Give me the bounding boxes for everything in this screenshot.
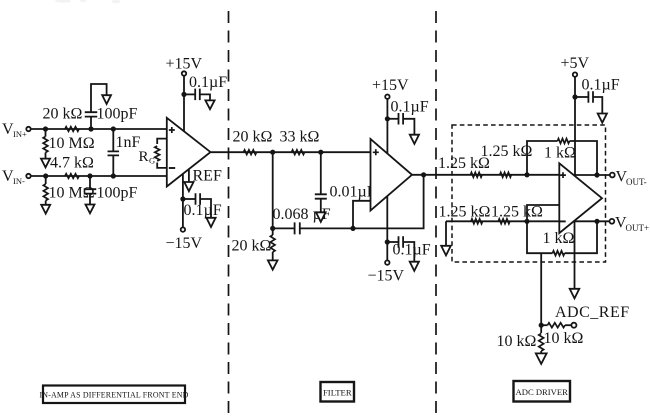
node I junction upper: [524, 172, 529, 177]
op-amp U1 in-amp triangle: [167, 118, 211, 187]
resistor 1.25 kOhm upper 2: [500, 172, 512, 177]
node junction feedback/minus jog: [350, 226, 355, 231]
terminal V_OUT-: [610, 173, 615, 178]
terminal -15V in-amp: [181, 227, 185, 231]
resistor 10 kOhm vertical to ground: [539, 325, 544, 353]
ground for filter V- decoupling: [410, 262, 419, 271]
capacitor 0.1uF decoupling in-amp V-: [183, 193, 211, 218]
resistor 10 MOhm (top, to ground): [43, 129, 48, 159]
svg-text:1.25 kΩ: 1.25 kΩ: [481, 143, 533, 160]
node junction ADC_REF: [539, 323, 544, 328]
resistor 1.25 kOhm lower 1: [471, 219, 483, 224]
svg-text:20 kΩ: 20 kΩ: [232, 237, 272, 254]
resistor 1.25 kOhm lower 2: [498, 219, 510, 224]
label V_OUT+: [615, 214, 649, 233]
node B junction (100pF tap): [88, 126, 93, 131]
svg-text:10 MΩ: 10 MΩ: [49, 135, 95, 152]
resistor 20 kOhm input (top): [65, 127, 79, 132]
node E junction (100pF bottom tap): [87, 173, 92, 178]
resistor 33 kOhm filter series: [292, 150, 305, 155]
terminal V_IN+: [26, 127, 30, 131]
wire V_IN- input line: [31, 175, 166, 177]
svg-text:REF: REF: [193, 168, 222, 185]
wire +15V supply to in-amp V+ pin: [183, 76, 185, 132]
label V_IN-: [2, 168, 25, 186]
section label box FILTER: [321, 382, 355, 402]
node D junction on V_IN- line: [43, 173, 48, 178]
resistor 4.7 kOhm (bottom line series): [65, 174, 79, 179]
ground for filter V+ decoupling: [410, 135, 419, 144]
wire in-amp V- pin to -15V terminal: [182, 174, 184, 227]
pin - marker of filter op-amp: [373, 200, 379, 202]
label V_OUT-: [616, 168, 647, 187]
wire V_OUT- output line: [574, 174, 610, 176]
svg-text:10 kΩ: 10 kΩ: [544, 330, 584, 347]
svg-text:0.1µF: 0.1µF: [582, 76, 620, 93]
section label box IN-AMP: [43, 386, 185, 404]
dashed separator 1: [228, 11, 230, 417]
pin - marker of in-amp: [169, 167, 175, 169]
svg-text:IN-: IN-: [13, 176, 25, 186]
capacitor 0.1uF decoupling +5V: [575, 91, 602, 113]
svg-text:10 kΩ: 10 kΩ: [497, 333, 537, 350]
svg-text:ADC DRIVER: ADC DRIVER: [516, 387, 569, 397]
dashed box ADC driver: [452, 125, 606, 262]
node junction on -15V wire: [180, 196, 185, 201]
node A junction on V_IN+ line: [43, 126, 48, 131]
svg-text:ADC_REF: ADC_REF: [555, 304, 630, 321]
svg-text:0.1µF: 0.1µF: [189, 74, 227, 91]
svg-text:0.1µF: 0.1µF: [184, 202, 222, 219]
capacitor 100pF (bottom, to ground): [84, 176, 97, 205]
svg-text:+15V: +15V: [372, 77, 409, 94]
ground REF pin: [184, 182, 193, 191]
resistor 10 kOhm horizontal to ADC_REF terminal: [541, 323, 571, 328]
wire +5V supply to diff amp: [574, 77, 576, 176]
ground for in-amp V- decoupling: [206, 218, 215, 227]
ground below 10 MOhm bottom: [41, 205, 50, 214]
svg-text:OUT-: OUT-: [626, 177, 647, 187]
wire filter op-amp output: [412, 174, 470, 176]
ground below filter 20 kOhm: [268, 260, 278, 269]
capacitor 0.1uF decoupling filter V+: [387, 113, 414, 135]
resistor 20 kOhm filter to ground: [270, 228, 275, 260]
svg-text:G: G: [149, 155, 155, 165]
pin + marker of diff amp: [560, 172, 566, 178]
node junction on +5V wire: [572, 94, 577, 99]
terminal +15V in-amp: [182, 71, 186, 75]
node H junction (0.01uF tap): [318, 150, 323, 155]
capacitor 1nF between lines: [108, 129, 120, 176]
wire bottom feedback loop with 1 kOhm: [527, 221, 597, 255]
node junction V_OUT+: [594, 219, 599, 224]
svg-text:1nF: 1nF: [116, 134, 141, 151]
node junction filter output: [421, 172, 426, 177]
faint cropped caption artifact top-left: [55, 0, 121, 3]
ground below 100pF bottom: [86, 205, 95, 214]
node junction V_OUT-: [594, 172, 599, 177]
label RG: [139, 149, 156, 165]
resistor 10 MOhm (bottom, to ground): [43, 176, 48, 205]
svg-text:0.01µF: 0.01µF: [330, 184, 376, 201]
wire filter feedback loop: [353, 175, 424, 229]
node junction on filter +15V wire: [385, 116, 390, 121]
ground below 0.01uF: [316, 212, 326, 222]
node G junction: [270, 150, 275, 155]
terminal +5V: [573, 72, 577, 76]
node junction on +15V wire: [181, 92, 186, 97]
svg-text:IN-AMP AS DIFFERENTIAL FRONT E: IN-AMP AS DIFFERENTIAL FRONT END: [39, 391, 188, 400]
wire lower line left end to ground: [445, 221, 447, 246]
wire +15V to filter op-amp V+: [386, 99, 388, 153]
op-amp U2 filter triangle: [371, 139, 413, 211]
ground for in-amp V+ decoupling: [205, 100, 214, 109]
terminal V_OUT+: [610, 219, 615, 224]
svg-text:−15V: −15V: [368, 268, 405, 285]
terminal ADC_REF: [571, 323, 576, 328]
node C junction (1nF top): [111, 126, 116, 131]
svg-text:+5V: +5V: [561, 55, 590, 72]
svg-text:R: R: [139, 149, 149, 165]
ground for 100pF top bracket: [102, 95, 111, 104]
terminal -15V filter: [385, 260, 389, 264]
capacitor 0.068uF series: [273, 222, 353, 234]
resistor RG gain loop: [155, 139, 167, 168]
capacitor 100pF (top): [85, 84, 107, 129]
pin + marker of in-amp: [169, 127, 175, 133]
wire upper input line to diff amp: [470, 174, 560, 176]
svg-text:1 kΩ: 1 kΩ: [543, 230, 575, 247]
section label box ADC DRIVER: [514, 381, 571, 402]
svg-text:OUT+: OUT+: [626, 223, 650, 233]
wire diff amp V- pin to ground: [574, 221, 576, 288]
resistor 1.25 kOhm upper 1: [471, 172, 483, 177]
ground below 10 kOhm: [536, 353, 547, 364]
wire node G down to lower filter node: [272, 152, 274, 228]
svg-text:33 kΩ: 33 kΩ: [280, 129, 320, 146]
ground below 10 MOhm top: [41, 159, 50, 168]
svg-text:20 kΩ: 20 kΩ: [233, 129, 273, 146]
svg-text:IN+: IN+: [13, 129, 27, 139]
label V_IN+: [2, 121, 27, 139]
ground diff amp V-: [570, 289, 580, 299]
capacitor 0.1uF decoupling filter V-: [387, 236, 414, 261]
dashed separator 2: [435, 11, 437, 417]
svg-text:4.7 kΩ: 4.7 kΩ: [50, 155, 94, 172]
svg-text:20 kΩ: 20 kΩ: [43, 106, 83, 123]
capacitor 0.1uF decoupling in-amp V+: [184, 89, 210, 101]
svg-text:100pF: 100pF: [97, 106, 138, 123]
svg-text:100pF: 100pF: [97, 185, 138, 202]
node J junction lower: [524, 219, 529, 224]
pin + marker of filter op-amp: [373, 149, 379, 155]
wire REF tap down to ADC_REF node: [540, 253, 542, 325]
svg-text:+15V: +15V: [166, 55, 203, 72]
wire filter op-amp V- to -15V: [386, 196, 388, 260]
svg-text:0.1µF: 0.1µF: [391, 99, 429, 116]
wire jog to op-amp - input: [353, 201, 371, 229]
svg-text:1 kΩ: 1 kΩ: [544, 145, 576, 162]
node junction on filter -15V wire: [385, 239, 390, 244]
terminal +15V filter: [385, 95, 389, 99]
ground for +5V decoupling: [598, 114, 607, 123]
wire REF pin of in-amp: [188, 170, 190, 182]
resistor 20 kOhm filter series: [244, 150, 257, 155]
ground lower line left: [441, 246, 451, 256]
svg-text:0.1µF: 0.1µF: [393, 242, 431, 259]
svg-text:−15V: −15V: [166, 235, 203, 252]
wire top feedback loop with 1 kOhm: [527, 139, 597, 175]
wire in-amp output to filter op-amp + input: [211, 151, 371, 153]
capacitor 0.01uF to ground: [315, 152, 327, 212]
pin - marker of diff amp: [559, 220, 566, 222]
wire V_IN+ input line: [31, 128, 166, 130]
node junction lower filter: [270, 226, 275, 231]
terminal V_IN-: [26, 174, 30, 178]
wire jog to diff amp - input: [527, 205, 559, 221]
svg-text:1.25 kΩ: 1.25 kΩ: [439, 203, 491, 220]
wire lower input line to diff amp: [446, 220, 559, 222]
op-amp U3 ADC driver triangle: [559, 163, 602, 233]
node F junction (1nF bottom): [111, 173, 116, 178]
svg-text:FILTER: FILTER: [323, 387, 352, 397]
wire V_OUT+ output line: [575, 220, 610, 222]
